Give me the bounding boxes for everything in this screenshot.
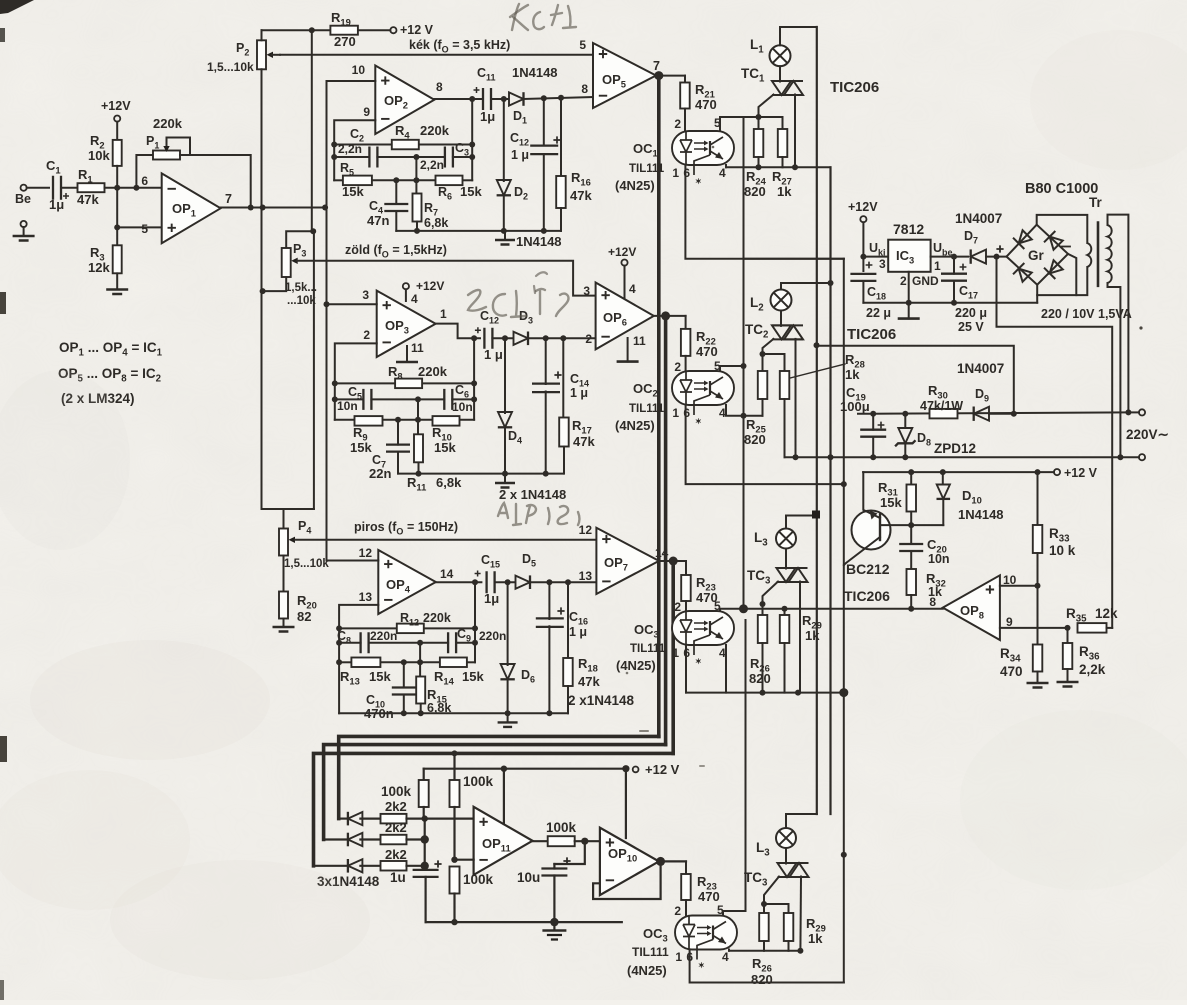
svg-text:+12V: +12V [608,245,636,259]
svg-text:10n: 10n [928,552,950,566]
IC3 7812 regulator [888,240,930,272]
wire OP2 - input to N1 [334,120,375,180]
wire +12V to R2 [116,122,118,141]
svg-text:1N4007: 1N4007 [957,361,1004,376]
resistor 100k series [548,836,575,846]
op-amp OP5 [593,43,656,108]
BC212 collector to return bus [844,537,880,693]
OP6 output fat node [654,315,686,317]
op-amp OP11 [474,807,533,875]
svg-text:1: 1 [440,307,447,321]
resistor R16 47k [560,98,562,176]
svg-text:TIL111: TIL111 [629,163,665,175]
svg-text:✶: ✶ [698,961,705,970]
svg-text:15k: 15k [462,669,484,684]
TC3 bottom MT1 wire down [799,877,802,951]
channel 3 ground rail [339,712,568,714]
return bus vertical x843 from channel1 rail to bottom [843,259,845,565]
svg-text:7: 7 [653,59,660,73]
wire D5 to OP7 - input rail [530,581,596,583]
resistor R25 820 [762,354,764,371]
svg-text:2k2: 2k2 [385,847,407,862]
svg-text:7: 7 [225,192,232,206]
op-amp OP3 [377,291,436,357]
scan speck near transformer [1139,326,1142,329]
svg-text:1N4148: 1N4148 [958,507,1004,522]
N2 vertical channel 3 [474,582,476,662]
P4 wiper arrow [289,537,296,543]
+12V supply terminal left [114,116,120,122]
diode D10 1N4148 [942,472,944,484]
resistor R29 1k bottom [764,904,789,913]
svg-text:2: 2 [363,328,370,342]
OP8 output line to R29 and gate [744,608,943,610]
svg-text:820: 820 [751,972,773,987]
svg-text:47k/1W: 47k/1W [920,399,963,413]
handwritten PIROS annotation [498,503,508,518]
svg-text:22 μ: 22 μ [866,306,891,320]
resistor 2k2 row1 [381,814,407,824]
svg-text:25 V: 25 V [958,320,984,334]
resistor R3 12k [113,245,122,273]
svg-text:+12V: +12V [101,99,131,113]
svg-text:Gr: Gr [1028,248,1045,263]
pencil dot marks near OP5 bus [640,730,648,732]
svg-text:+12V: +12V [848,200,878,214]
svg-text:2: 2 [674,904,681,918]
thick bus from OP5 output down to bottom network [657,76,661,737]
primary bottom wire [1108,283,1121,457]
svg-text:GND: GND [912,274,939,288]
wire C1 to R1 [61,187,78,189]
resistor R1 47k [78,183,105,192]
svg-text:8: 8 [436,80,443,94]
rail D with R13 and R14 [339,661,351,663]
diode D7 1N4007 [971,250,986,264]
svg-text:1μ: 1μ [484,591,499,606]
ground symbol channel 3 [507,713,509,722]
transformer Tr secondary coil [1087,243,1091,267]
diode D2 shunt [503,99,505,181]
svg-text:+12V: +12V [416,279,444,293]
wire D7 to bridge + [986,256,1007,258]
svg-text:2,2k: 2,2k [1079,662,1106,677]
bridge + vertical down to mains rail [997,257,1113,628]
svg-text:220n: 220n [479,629,506,643]
lamp L3 mid [776,529,796,549]
capacitor C10 470n branch [403,662,405,687]
vertical from D9 junction to mains bus tap [817,346,1014,414]
diode mixer D row1 1N4148 [339,817,346,819]
triac TC3 TIC206 bottom [778,863,797,877]
capacitor C7 22n branch [397,420,399,445]
svg-text:14: 14 [655,546,669,560]
wire P3 top to bus [286,231,313,247]
svg-text:2: 2 [900,274,907,288]
svg-text:+12 V: +12 V [645,762,680,777]
wire C19 junction to left [858,413,873,415]
scan left edge mark 4 [0,980,4,1000]
OC3 mid pin5 wire to fat junction [720,609,744,611]
svg-text:Be: Be [15,192,31,206]
input terminal Be [21,185,27,191]
svg-text:2,2n: 2,2n [420,158,444,172]
resistor 100k pull-up 2 [453,753,455,780]
P2 wiper arrow [267,52,274,58]
mains rail lower [785,456,1121,458]
capacitor C2 2,2n [369,147,377,168]
OC1 pin5 bracket vertical [743,117,745,259]
svg-text:9: 9 [363,105,370,119]
bottom network ground rail [426,921,622,923]
resistor R32 1k [907,569,917,595]
op-amp OP2 [375,66,434,135]
OP2 output node wire [434,98,482,100]
svg-text:2,2n: 2,2n [338,142,362,156]
resistor R18 47k [567,582,569,658]
OP10 output fat node [656,857,665,866]
resistor R26 820 bottom [763,904,765,913]
svg-text:47k: 47k [573,434,595,449]
wire R23 to OC3 pin2 [685,601,687,611]
wire P1 to OP1 output feedback [180,155,251,208]
svg-text:47k: 47k [77,192,99,207]
svg-text:1N4148: 1N4148 [512,65,558,80]
L1 top wire to mains bus [780,27,817,45]
resistor R35 12k [1078,623,1107,633]
svg-text:3: 3 [879,257,886,271]
OP10 feedback loop [593,861,661,899]
resistor R10 15k [433,416,460,426]
resistor R17 47k [562,338,564,418]
svg-text:4: 4 [719,166,726,180]
scan left edge mark 3 [0,736,7,762]
resistor 100k pull-up 1 [423,769,425,781]
svg-text:TIC206: TIC206 [830,79,879,96]
TC1 gate wire [759,95,774,118]
resistor R23 470 bottom [685,861,687,874]
BC212 emitter arrow [870,511,878,520]
OP11 power stub [503,769,505,824]
OC2 pin5 wire to common vertical [720,366,744,371]
svg-text:4: 4 [411,292,418,306]
bus vertical from P2 bottom [262,69,314,509]
wire D9 to junction with vertical [989,413,1014,415]
OP11 - input wire [455,859,474,861]
svg-text:220k: 220k [418,364,448,379]
resistor 2k2 row2 [381,835,407,845]
svg-text:Tr: Tr [1089,195,1103,210]
capacitor C4 47n branch [395,180,397,203]
svg-text:2: 2 [674,360,681,374]
mains terminal upper 220V [1128,411,1139,413]
resistor R27 1k [759,117,783,129]
svg-text:15k: 15k [369,669,391,684]
optocoupler OC2 TIL111 [672,371,734,405]
svg-text:220n: 220n [370,629,397,643]
svg-text:100μ: 100μ [840,399,870,414]
capacitor C16 1u shunt [548,582,550,619]
channel 2 ground rail [398,473,563,475]
OC1 pin4 stub [725,165,727,167]
zener diode D8 ZPD12 [902,411,908,417]
svg-text:8: 8 [929,595,936,609]
mains bus vertical x816 [816,27,818,814]
svg-text:ZPD12: ZPD12 [934,441,976,456]
capacitor C15 1u series channel 3 [475,571,481,577]
resistor R6 15k [436,176,463,186]
wire D3 to OP6 - input rail [528,337,596,339]
resistor R33 10k [1037,472,1039,526]
resistor R36 2,2k [1067,628,1069,643]
thick bus from OP7 output down [671,561,675,753]
svg-text:6: 6 [141,174,148,188]
TC3 mid gate wire [763,582,779,605]
wire R19 to +12V terminal [358,29,390,31]
svg-text:...10k: ...10k [287,295,316,307]
svg-text:100k: 100k [546,820,577,835]
OC3 mid pin1 stub [685,645,687,693]
potentiometer P1 220k [136,155,153,188]
pencil mark right of OP6 [536,272,547,276]
capacitor C20 10n [910,525,912,544]
bridge diode bottom-left [1013,263,1033,283]
svg-text:1,5k...: 1,5k... [285,282,317,294]
resistor R23 470 mid [685,561,687,575]
resistor R28 1k [763,354,785,371]
svg-text:TIL111: TIL111 [629,403,665,415]
svg-text:470: 470 [695,97,717,112]
svg-text:15k: 15k [350,440,372,455]
svg-text:5: 5 [141,222,148,236]
svg-text:22n: 22n [369,466,391,481]
wire 100k to OP10 + [575,840,600,842]
svg-text:1: 1 [672,166,679,180]
OP7 output fat node [659,560,686,562]
mains bus vertical x830 [829,167,831,814]
channel 1 triac cathode rail [726,166,831,168]
resistor R31 15k [910,472,912,485]
svg-text:47k: 47k [578,674,600,689]
svg-text:47n: 47n [367,213,389,228]
resistor R4 220k [392,140,419,150]
wire R23 to OC3 bottom pin2 [685,900,687,916]
svg-text:1k: 1k [808,931,823,946]
TC1 MT1 wire down [794,95,796,168]
wire R21 to OC1 pin2 [684,109,686,132]
op-amp OP10 [600,828,659,895]
rail B with C8 and C9 [339,642,361,644]
svg-text:1k: 1k [805,628,820,643]
svg-text:10k: 10k [88,148,110,163]
channel 1 ground rail [396,230,561,232]
resistor R14 15k [440,658,467,668]
triac TC2 TIC206 [772,325,791,339]
triac TC1 TIC206 [772,81,791,95]
mains terminal lower 220V [1120,456,1139,458]
ground below R36 [1057,682,1079,687]
svg-text:220k: 220k [420,123,450,138]
svg-text:✶: ✶ [695,177,702,186]
optocoupler OC3 TIL111 mid [672,611,734,645]
BC212 base bar [879,515,881,541]
svg-text:82: 82 [297,609,311,624]
svg-text:1: 1 [672,646,679,660]
handwritten ZOLD annotation [468,290,486,311]
paper tone blotches [30,640,270,760]
wire OP2 + input [327,80,376,82]
TC3 bottom gate wire [764,877,779,905]
op-amp OP8 pointing left [943,575,1000,640]
OC1 pin5 wire to gate node [720,117,759,131]
svg-text:220k: 220k [153,116,183,131]
svg-text:470: 470 [698,889,720,904]
svg-text:4: 4 [629,282,636,296]
bridge diode top-right [1044,231,1064,251]
svg-text:2 x 1N4148: 2 x 1N4148 [499,487,566,502]
svg-text:10n: 10n [337,399,358,413]
resistor R15 6,8k [419,662,421,676]
capacitor C1 [53,176,61,200]
svg-text:8: 8 [581,82,588,96]
wire signal bus to OP4 input [327,559,342,562]
svg-text:10: 10 [352,63,366,77]
svg-text:5: 5 [579,38,586,52]
transistor Q1 BC212 [852,511,891,550]
OC3 mid pin4 stub [725,645,727,693]
IC3 GND pin 2 [908,272,910,319]
OC2 pin1 wire down to return rail [686,405,844,484]
op-amp OP4 [378,550,436,614]
mains rail upper from D9 to terminal [873,412,1128,413]
resistor R13 15k [351,658,380,668]
svg-text:4: 4 [719,406,726,420]
diode mixer D row3 1N4148 [314,865,346,867]
L2 top wire to mains bus x830 [781,283,831,290]
capacitor C9 220n [448,632,456,653]
triac TC3 TIC206 mid [777,568,796,582]
svg-text:10n: 10n [452,400,473,414]
optocoupler OC3 TIL111 bottom [675,916,737,950]
svg-text:11: 11 [411,341,424,355]
svg-text:TIL111: TIL111 [632,945,669,959]
potentiometer P3 [282,248,291,277]
resistor R26 820 mid [762,604,764,615]
bus bend OP5 to diode row1 [339,736,659,818]
svg-text:220k: 220k [423,611,451,625]
resistor R30 47k/1W [930,409,958,419]
TC2 gate wire [763,339,774,354]
OP6 ground pin 11 [627,338,629,362]
bus vertical from R19 rail [311,30,313,231]
capacitor 1u electrolytic [424,866,426,870]
capacitor C14 1u shunt [545,338,547,384]
+12V line bottom network [424,768,626,770]
resistor R11 6,8k [417,420,419,434]
bridge diode bottom-right [1044,259,1064,279]
svg-text:2k2: 2k2 [385,820,407,835]
mid junction rail B to rail D channel 3 [419,643,421,663]
L1 to TC1 wire [779,66,781,81]
wire OP1 non-inverting input [117,226,162,228]
OC3 bottom pin5 wire to common vertical [723,911,744,916]
OC1 pin1 wire down and return rail [685,165,843,259]
svg-text:15k: 15k [342,184,364,199]
resistor R5 15k [343,176,372,186]
capacitor C3 2,2n [445,147,453,168]
ground symbol channel 1 [504,231,506,240]
svg-text:820: 820 [749,671,771,686]
rail B with C2 and C3 [334,156,369,158]
svg-text:1 μ: 1 μ [569,625,587,639]
op-amp OP6 [596,283,654,350]
svg-text:13: 13 [579,569,593,583]
OP11 output wire [533,840,548,842]
svg-text:14: 14 [440,567,454,581]
svg-text:(4N25): (4N25) [615,178,655,193]
svg-text:7812: 7812 [893,221,924,237]
OP3 ground pin 11 [406,346,408,362]
wire R35 to mains bus vertical [1107,627,1113,629]
scan left edge mark 2 [0,292,6,314]
common vertical pin5 lower segment [745,620,747,911]
primary top wire [1108,215,1129,413]
potentiometer P4 [283,509,285,529]
P3 wiper arrow [291,258,298,264]
diode D3 1N4148 [514,332,529,345]
resistor R9 15k [355,416,383,426]
svg-text:1 μ: 1 μ [484,347,503,362]
svg-text:TIC206: TIC206 [847,326,896,343]
svg-text:TIC206: TIC206 [844,588,890,604]
svg-text:10u: 10u [517,870,540,885]
svg-text:2: 2 [674,117,681,131]
wire +12V down to Uki node [862,222,864,271]
OP3 +12V pin 4 [403,283,409,289]
svg-text:1: 1 [934,259,941,273]
svg-text:1,5...10k: 1,5...10k [207,60,254,74]
OC3 bottom pin4 stub [728,950,730,951]
svg-text:2k2: 2k2 [385,799,407,814]
svg-text:TIL111: TIL111 [630,643,666,655]
optocoupler OC1 TIL111 [672,131,734,165]
bridge diode top-left [1013,229,1033,249]
L2 to TC2 wire [780,311,782,326]
svg-text:2: 2 [674,600,681,614]
svg-text:270: 270 [334,34,356,49]
svg-text:2: 2 [585,332,592,346]
capacitor C12 1u series channel 2 [475,327,481,333]
mid junction rail B to rail D channel 2 [417,399,419,419]
svg-text:1k: 1k [845,367,860,382]
wire OP3 - input to N1 [335,343,377,419]
svg-text:1: 1 [675,950,682,964]
wire input to C1 [27,187,49,189]
bridge bottom vertex to ground rail [1036,285,1038,303]
R28 label with pointer [790,364,845,378]
L3 top wire to mains bus heavy junction [786,516,817,529]
ground terminal at input [21,221,27,227]
wire D1 to OP5 - input rail [524,97,594,99]
wire C12 to D3 [492,337,513,339]
svg-text:470: 470 [1000,664,1023,679]
svg-text:1N4007: 1N4007 [955,211,1002,226]
OP8 - input wire pin 9 [1000,627,1068,629]
svg-text:6,8k: 6,8k [424,216,448,230]
wire OP1 output [221,207,326,209]
lamp L2 [771,290,792,311]
diode mixer D row2 1N4148 [324,838,346,840]
